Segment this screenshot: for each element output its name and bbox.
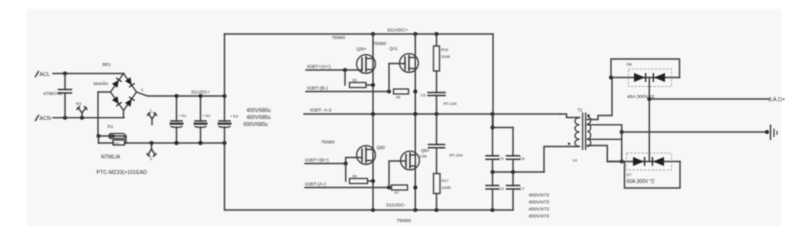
wire output positive <box>647 97 769 101</box>
capacitor C7 <box>507 172 526 210</box>
svg-text:Q8D: Q8D <box>377 145 385 150</box>
wire primary bottom return <box>544 147 580 173</box>
svg-text:FU: FU <box>108 124 114 129</box>
svg-text:Q30+: Q30+ <box>357 47 368 52</box>
capacitor C5 <box>486 128 504 173</box>
wire bridge plus output to DC bus <box>137 92 225 96</box>
wire Q4 gate lead <box>389 161 406 188</box>
diode D8a <box>634 73 646 82</box>
wire leg B vertical <box>414 34 416 210</box>
capacitor C9 snubber upper <box>421 71 458 114</box>
resistor R16 snubber upper <box>434 34 451 71</box>
svg-text:C08: C08 <box>420 154 427 158</box>
svg-text:R7: R7 <box>395 191 399 195</box>
svg-text:D7: D7 <box>627 172 633 177</box>
svg-text:R6: R6 <box>353 175 357 179</box>
node ACL input terminal <box>36 72 51 79</box>
svg-text:75N60: 75N60 <box>332 35 346 40</box>
wire rail jog to C6 <box>491 114 514 130</box>
svg-text:400V/680u: 400V/680u <box>247 115 271 121</box>
svg-text:NTML/A: NTML/A <box>101 155 121 161</box>
svg-text:RT-104: RT-104 <box>444 101 458 106</box>
svg-text:400V/680u: 400V/680u <box>247 108 271 114</box>
wire QA1 gate lead <box>389 64 405 92</box>
svg-text:400V/473: 400V/473 <box>529 193 550 199</box>
wire through D7 <box>607 161 680 163</box>
transformer T2 <box>568 108 591 163</box>
svg-text:R5: R5 <box>396 95 400 99</box>
svg-text:T2: T2 <box>578 108 584 113</box>
diode module D8 outline <box>611 59 680 78</box>
wire mid bus to transformer return <box>491 170 545 174</box>
svg-text:C5: C5 <box>499 156 505 161</box>
svg-text:200R: 200R <box>442 185 451 190</box>
svg-text:ACN: ACN <box>40 116 51 122</box>
wire secondary tap3 to D7 <box>587 146 624 162</box>
label bus cap values <box>244 108 271 128</box>
svg-text:C9: C9 <box>421 94 426 98</box>
wire bottom bus 311VDC- <box>225 208 514 212</box>
svg-text:400V/473: 400V/473 <box>529 207 550 213</box>
svg-text:311VDC+: 311VDC+ <box>191 90 210 95</box>
svg-text:+ E3: + E3 <box>230 115 238 119</box>
node 1 connector stub <box>148 109 157 125</box>
bridge rectifier BR1 <box>94 62 144 111</box>
dashed box around D7 diodes <box>627 153 672 170</box>
diode D7b <box>652 157 664 166</box>
wire secondary tap1 to D8 <box>587 78 612 120</box>
svg-text:Q8A: Q8A <box>421 148 429 153</box>
svg-text:IGBT- A-2: IGBT- A-2 <box>310 108 332 114</box>
wire top bus 311VDC+ <box>225 32 494 36</box>
svg-text:R16: R16 <box>441 47 448 52</box>
capacitor C1 X-cap across AC line <box>43 74 71 118</box>
transistor Q4 Q8A bottom-right IGBT <box>401 148 430 170</box>
svg-text:200R: 200R <box>441 54 450 59</box>
svg-text:311VDC-: 311VDC- <box>386 203 406 209</box>
svg-text:311VDC+: 311VDC+ <box>387 28 408 34</box>
svg-text:BR1: BR1 <box>103 62 112 67</box>
varistor R3 <box>76 101 87 118</box>
wire through D8 <box>609 76 680 80</box>
svg-text:75N60: 75N60 <box>321 140 335 145</box>
dashed box around D8 diodes <box>629 69 672 87</box>
wire center tap to ground <box>622 130 769 134</box>
wire gate drive IGBT-(A-) <box>305 182 417 190</box>
svg-text:+ E2: + E2 <box>203 114 211 118</box>
wire gate drive IGBT+(A+) <box>306 64 362 72</box>
svg-text:C7: C7 <box>520 186 526 191</box>
diode D8b <box>653 73 665 82</box>
wire bridge minus vertex down to fuse <box>98 92 111 136</box>
svg-text:75N60: 75N60 <box>373 41 387 46</box>
fuse FU <box>97 124 127 139</box>
svg-text:75N60: 75N60 <box>397 218 412 224</box>
resistor R2 gate-emitter Q1 <box>345 70 375 88</box>
svg-text:RT-104: RT-104 <box>450 152 464 157</box>
wire gate drive IGBT+(B+) <box>305 158 362 166</box>
diode module D7 outline <box>625 162 681 189</box>
svg-text:470K/AC: 470K/AC <box>43 91 62 96</box>
svg-text:400V/473: 400V/473 <box>529 200 550 206</box>
svg-text:BB50/15: BB50/15 <box>94 82 109 86</box>
resistor R17 snubber lower <box>434 174 451 211</box>
svg-text:C6: C6 <box>520 156 526 161</box>
svg-text:R3: R3 <box>76 101 82 106</box>
wire left vertical - rail <box>224 143 226 210</box>
svg-text:D8: D8 <box>627 62 633 67</box>
capacitor C6 <box>507 128 526 173</box>
svg-text:60A 300V *2: 60A 300V *2 <box>627 179 655 185</box>
svg-text:400V/473: 400V/473 <box>529 214 550 220</box>
wire rectifier midpoint vertical <box>648 78 650 162</box>
wire mid output to transformer primary top <box>560 114 580 118</box>
resistor R6 gate-emitter Q3 <box>346 164 375 184</box>
svg-text:QA1: QA1 <box>390 46 399 51</box>
svg-text:3: 3 <box>141 88 143 92</box>
svg-text:R17: R17 <box>442 178 449 183</box>
thermistor PTC (parallel with fuse) <box>99 136 127 145</box>
resistor R7 gate-emitter Q4 <box>392 185 408 195</box>
diode D7a <box>633 157 645 166</box>
capacitor C08 snubber lower <box>420 114 464 174</box>
svg-text:600V/680u: 600V/680u <box>244 122 268 128</box>
transistor Q2 QA1 top-right IGBT <box>373 41 419 72</box>
transistor Q3 Q8D bottom-left IGBT <box>321 140 385 165</box>
svg-text:ACL: ACL <box>40 72 51 78</box>
capacitor E1 electrolytic bus cap <box>170 94 187 145</box>
node ACN input terminal <box>36 116 51 123</box>
wire gate drive IGBT-(B-) <box>306 86 417 94</box>
wire secondary center tap lower <box>587 138 621 140</box>
wire top bus corner down right rail <box>492 34 494 128</box>
svg-text:PTC-MZ33(+101EAD: PTC-MZ33(+101EAD <box>97 170 148 176</box>
capacitor E2 electrolytic bus cap <box>194 94 211 145</box>
wire left vertical + rail <box>224 34 226 96</box>
resistor R5 gate-emitter Q2 <box>394 89 409 99</box>
transistor Q1 Q30+ top-left IGBT <box>332 35 376 73</box>
capacitor C3 <box>486 172 504 210</box>
wire fuse output to negative cap bus <box>126 141 225 145</box>
svg-text:R2: R2 <box>353 79 357 83</box>
svg-text:(LA,1)+: (LA,1)+ <box>769 97 786 103</box>
wire secondary center tap upper <box>587 125 623 164</box>
label blocking cap values <box>529 193 550 220</box>
svg-text:+ E1: + E1 <box>179 114 187 118</box>
node 2 connector stub <box>147 143 156 161</box>
wire ACN to bridge <box>53 116 124 120</box>
svg-text:1: 1 <box>103 81 105 85</box>
svg-text:PTC: PTC <box>114 141 120 145</box>
wire mid output IGBT- A-2 <box>304 108 560 117</box>
capacitor E3 electrolytic bus cap <box>218 94 238 145</box>
wire bridge bottom vertex to ACN line <box>123 111 125 118</box>
ground <box>771 125 778 141</box>
wire ACL to bridge <box>53 72 124 76</box>
svg-text:14: 14 <box>573 158 578 163</box>
svg-text:IGBT+(A+): IGBT+(A+) <box>307 64 331 70</box>
svg-text:C3: C3 <box>499 186 505 191</box>
wire leg A vertical <box>372 34 374 210</box>
